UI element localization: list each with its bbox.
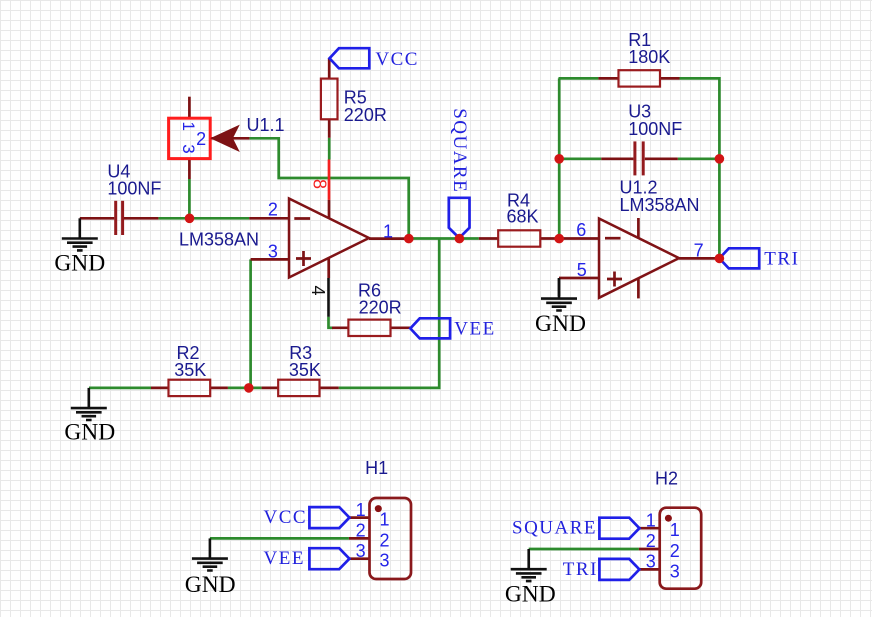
svg-text:1: 1 — [670, 520, 680, 540]
svg-text:SQUARE: SQUARE — [512, 518, 597, 539]
svg-text:TRI: TRI — [563, 559, 598, 580]
svg-text:3: 3 — [268, 242, 278, 262]
svg-text:H1: H1 — [365, 458, 388, 478]
svg-text:U1.1: U1.1 — [247, 115, 285, 135]
svg-text:68K: 68K — [507, 207, 539, 227]
svg-text:4: 4 — [308, 286, 328, 296]
svg-text:TRI: TRI — [764, 248, 799, 269]
svg-text:VEE: VEE — [454, 319, 495, 340]
svg-text:6: 6 — [576, 220, 586, 240]
svg-text:35K: 35K — [289, 360, 321, 380]
svg-text:VCC: VCC — [375, 49, 419, 70]
svg-text:SQUARE: SQUARE — [449, 108, 470, 193]
svg-text:VCC: VCC — [264, 507, 308, 528]
svg-text:GND: GND — [185, 572, 236, 598]
svg-text:7: 7 — [694, 241, 704, 261]
svg-text:LM358AN: LM358AN — [179, 229, 259, 249]
svg-text:180K: 180K — [628, 47, 670, 67]
svg-text:1: 1 — [383, 222, 393, 242]
svg-text:2: 2 — [196, 129, 206, 149]
svg-text:2: 2 — [356, 521, 366, 541]
svg-text:VEE: VEE — [264, 548, 305, 569]
svg-text:3: 3 — [356, 541, 366, 561]
svg-text:GND: GND — [505, 582, 556, 608]
svg-text:3: 3 — [646, 552, 656, 572]
svg-text:220R: 220R — [359, 297, 402, 317]
svg-text:3: 3 — [380, 551, 390, 571]
svg-text:1: 1 — [380, 510, 390, 530]
svg-text:35K: 35K — [174, 360, 206, 380]
svg-text:H2: H2 — [655, 469, 678, 489]
svg-text:1: 1 — [356, 500, 366, 520]
svg-text:LM358AN: LM358AN — [620, 195, 700, 215]
svg-text:2: 2 — [268, 199, 278, 219]
svg-text:1: 1 — [646, 510, 656, 530]
svg-text:5: 5 — [577, 260, 587, 280]
svg-text:2: 2 — [670, 541, 680, 561]
svg-text:220R: 220R — [344, 105, 387, 125]
svg-text:GND: GND — [535, 311, 586, 337]
svg-text:100NF: 100NF — [107, 178, 161, 198]
svg-text:2: 2 — [380, 530, 390, 550]
svg-text:GND: GND — [64, 420, 115, 446]
svg-text:100NF: 100NF — [628, 119, 682, 139]
svg-text:GND: GND — [54, 250, 105, 276]
svg-text:2: 2 — [646, 531, 656, 551]
svg-text:8: 8 — [309, 179, 329, 189]
svg-text:3: 3 — [670, 561, 680, 581]
